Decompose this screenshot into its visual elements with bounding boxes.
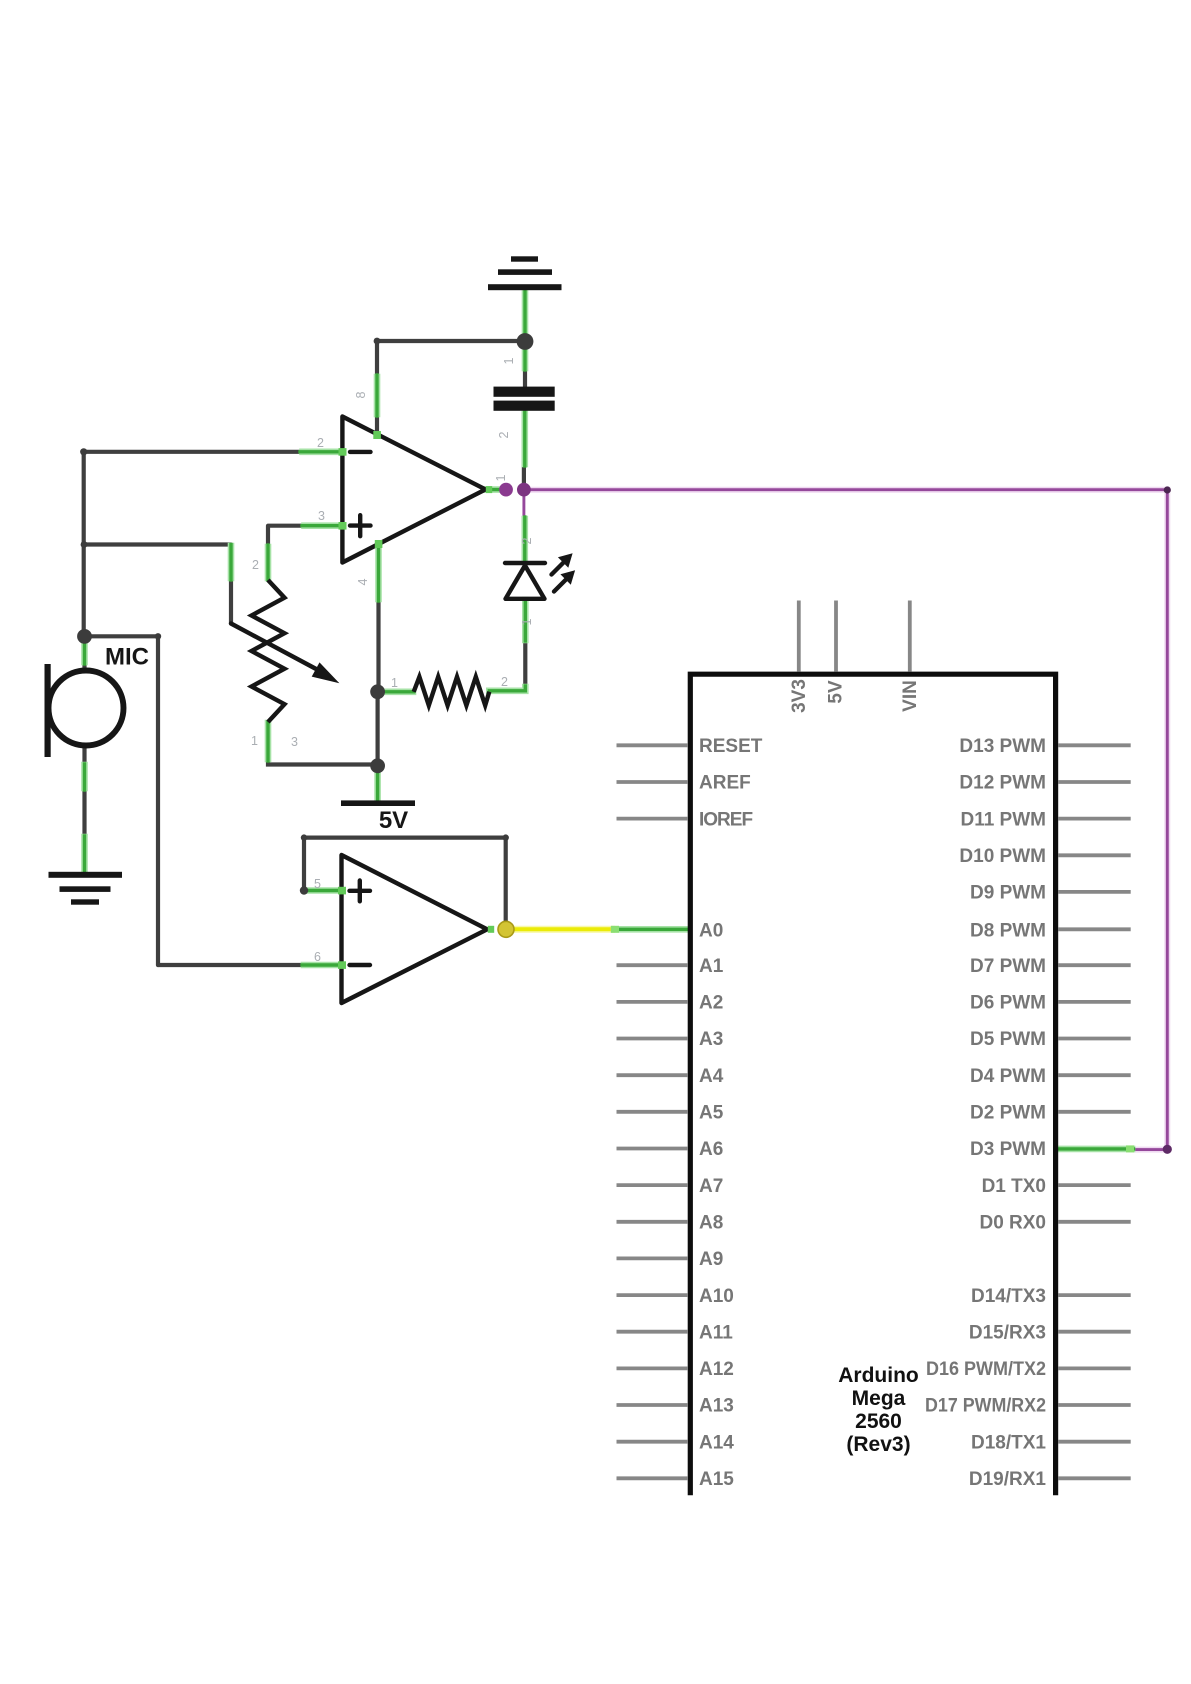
svg-text:3V3: 3V3	[789, 679, 810, 713]
svg-text:5V: 5V	[379, 807, 408, 834]
node: corner at op-amp pin2 wire	[80, 448, 87, 455]
wire: vertical down to U1B pin 6	[156, 636, 160, 965]
capacitor C1	[494, 387, 555, 411]
svg-text:6: 6	[314, 950, 321, 964]
svg-text:D17 PWM/RX2: D17 PWM/RX2	[925, 1396, 1046, 1417]
ground GND2 (bottom, under MIC)	[49, 872, 123, 905]
svg-text:8: 8	[354, 391, 368, 398]
svg-text:D2 PWM: D2 PWM	[970, 1102, 1046, 1123]
wire green: ground stem to node	[522, 289, 529, 340]
svg-text:D6 PWM: D6 PWM	[970, 993, 1046, 1014]
wire green: pot wiper pin lead	[228, 545, 235, 581]
svg-text:Arduino: Arduino	[838, 1364, 918, 1387]
wire: vertical from pin2 corner down to MIC node	[82, 452, 86, 637]
svg-text:VIN: VIN	[900, 680, 921, 712]
svg-text:A10: A10	[699, 1286, 734, 1307]
IC U2 Arduino Mega 2560 body	[690, 674, 1055, 1495]
svg-text:A3: A3	[699, 1029, 723, 1050]
wire: mic out to op-amp U1A pin 2 (horizontal)	[84, 450, 302, 454]
svg-text:A4: A4	[699, 1066, 724, 1087]
svg-text:D18/TX1: D18/TX1	[971, 1432, 1046, 1453]
wire green: C1 pin2 lead down to output node	[521, 411, 528, 466]
junction node: resistor R1 / pin4	[370, 684, 385, 699]
wire green: U1A pin4 lead	[375, 545, 382, 601]
wire green: U1B pin6 lead	[302, 962, 341, 969]
svg-text:D8 PWM: D8 PWM	[970, 921, 1046, 942]
wire green: U1A pin3 lead	[302, 522, 341, 529]
node: purple end at D3	[1163, 1145, 1172, 1154]
svg-text:1: 1	[502, 357, 516, 364]
wire green: U1A pin8 lead	[374, 375, 381, 416]
svg-text:A15: A15	[699, 1469, 734, 1490]
svg-text:1: 1	[391, 676, 398, 690]
junction node: top ground/cap/feedback	[517, 333, 534, 350]
svg-text:A9: A9	[699, 1249, 723, 1270]
wire green: U1A pin2 lead	[300, 448, 341, 455]
svg-text:2: 2	[520, 537, 534, 544]
svg-text:D0 RX0: D0 RX0	[979, 1212, 1046, 1233]
node: bendpoint where wiper wire taps	[81, 541, 88, 548]
wire: U1B feedback loop	[304, 838, 506, 922]
svg-text:1: 1	[520, 618, 534, 625]
svg-text:D7 PWM: D7 PWM	[970, 956, 1046, 977]
wire green: pot top pin lead	[265, 545, 272, 580]
wire green: pot bottom pin lead	[265, 722, 272, 761]
svg-text:D1 TX0: D1 TX0	[982, 1176, 1046, 1197]
wire: pot pin1 to 5V node	[268, 760, 371, 765]
wire green: A0 wire into chip	[611, 926, 691, 933]
svg-text:A13: A13	[699, 1396, 734, 1417]
wire green: D3 PWM stub wire	[1057, 1145, 1134, 1152]
svg-text:1: 1	[494, 474, 508, 481]
pin number labels	[251, 357, 534, 964]
wire green: 5V node stem	[374, 771, 381, 801]
node: yellow junction at U1B output	[498, 921, 514, 937]
svg-text:D11 PWM: D11 PWM	[960, 809, 1046, 830]
svg-text:A8: A8	[699, 1212, 723, 1233]
op-amp U1B	[342, 855, 488, 1003]
svg-text:2: 2	[501, 675, 508, 689]
svg-text:D12 PWM: D12 PWM	[959, 773, 1046, 794]
op-amp U1A	[342, 417, 485, 563]
ground GND1 (top, inverted)	[488, 256, 562, 290]
svg-text:2560: 2560	[855, 1410, 902, 1433]
wire yellow: U1B output to A0	[502, 926, 615, 933]
svg-text:4: 4	[356, 578, 370, 585]
wire green: C1 pin1 lead	[522, 348, 529, 370]
node: bendpoint right of MIC	[155, 633, 161, 639]
junction node: MIC	[77, 629, 92, 644]
svg-text:D10 PWM: D10 PWM	[959, 846, 1046, 867]
wire: MIC node right to second op-amp branch	[85, 634, 159, 638]
svg-text:5V: 5V	[826, 680, 847, 704]
node: purple corner top right	[1164, 486, 1171, 493]
svg-text:IOREF: IOREF	[699, 809, 752, 830]
U2 right pin labels	[925, 736, 1046, 1490]
svg-text:A7: A7	[699, 1176, 723, 1197]
wire: horizontal to U1B pin 6	[158, 963, 303, 967]
wire green: R1 pin1 lead	[384, 688, 414, 695]
node: purple junction dots at U1A output	[499, 483, 513, 497]
svg-text:D13 PWM: D13 PWM	[959, 736, 1046, 757]
svg-text:A11: A11	[699, 1322, 733, 1343]
green pin ticks at op-amp edges	[338, 431, 494, 969]
U2 right pin stubs	[1058, 745, 1131, 1478]
wire: MIC node to pot wiper (horizontal at y=544.5)	[84, 542, 231, 546]
potentiometer R2 zigzag	[252, 580, 285, 722]
wire: U1A pin 8 up and over to ground node	[377, 341, 521, 435]
svg-text:D9 PWM: D9 PWM	[970, 883, 1046, 904]
svg-text:1: 1	[251, 734, 258, 748]
svg-text:D16 PWM/TX2: D16 PWM/TX2	[926, 1359, 1046, 1380]
svg-text:A2: A2	[699, 993, 723, 1014]
svg-text:Mega: Mega	[852, 1387, 906, 1410]
wire: pot pin3 corner to U1A pin 3	[268, 526, 304, 546]
svg-text:RESET: RESET	[699, 736, 763, 757]
svg-text:2: 2	[497, 431, 511, 438]
svg-text:D15/RX3: D15/RX3	[969, 1322, 1046, 1343]
wire: between resistor node and 5V node	[376, 692, 380, 766]
svg-text:A1: A1	[699, 956, 724, 977]
svg-text:D3 PWM: D3 PWM	[970, 1139, 1046, 1160]
svg-text:2: 2	[317, 436, 324, 450]
node: U1B pin5 endpoint	[300, 886, 308, 894]
svg-text:D4 PWM: D4 PWM	[970, 1066, 1046, 1087]
U2 left pin labels	[699, 736, 763, 1490]
svg-text:3: 3	[291, 735, 298, 749]
svg-text:D5 PWM: D5 PWM	[970, 1029, 1046, 1050]
wire: U1A pin4 down to resistor node	[376, 599, 380, 686]
svg-text:D14/TX3: D14/TX3	[971, 1286, 1046, 1307]
wire green: LED bottom lead	[522, 599, 529, 641]
wire green: MIC bottom leads	[81, 764, 88, 872]
svg-text:A5: A5	[699, 1102, 724, 1123]
svg-text:5: 5	[314, 877, 321, 891]
svg-text:A0: A0	[699, 921, 723, 942]
svg-text:A12: A12	[699, 1359, 734, 1380]
wire: pot wiper dark part	[229, 579, 233, 624]
svg-text:AREF: AREF	[699, 773, 751, 794]
node: corner bendpoint at pin8 wire	[374, 338, 381, 345]
junction node: 5V	[370, 758, 385, 773]
svg-text:D19/RX1: D19/RX1	[969, 1469, 1047, 1490]
wire green: U1A output apex tick	[484, 486, 500, 493]
potentiometer R2 wiper arrow	[231, 624, 339, 684]
power symbol 5V	[341, 800, 415, 806]
svg-text:2: 2	[252, 558, 259, 572]
LED LED1	[505, 553, 575, 599]
svg-text:MIC: MIC	[105, 644, 149, 671]
wire: MIC leads dark	[82, 641, 86, 872]
U2 title label	[838, 1364, 918, 1456]
svg-text:A14: A14	[699, 1432, 734, 1453]
svg-text:A6: A6	[699, 1139, 723, 1160]
resistor R1	[414, 677, 490, 706]
wire net VOUT purple: op-amp U1A output to D3 PWM	[524, 490, 1167, 1150]
U2 top pins 3V3 5V VIN	[799, 601, 910, 672]
wire green: U1B pin5 lead	[305, 887, 341, 894]
svg-text:3: 3	[318, 509, 325, 523]
wire green: LED top lead	[521, 517, 528, 561]
wire: LED bottom lead dark part	[523, 641, 527, 686]
wire: capacitor C1 leads dark parts	[524, 369, 525, 486]
svg-text:(Rev3): (Rev3)	[846, 1433, 910, 1456]
node: U1B feedback corners	[301, 834, 307, 840]
wire green: MIC top lead	[81, 643, 88, 664]
wire green: LED to resistor R1 pin2	[489, 686, 525, 691]
microphone MIC	[45, 664, 124, 757]
U2 left pin stubs	[617, 745, 689, 1478]
